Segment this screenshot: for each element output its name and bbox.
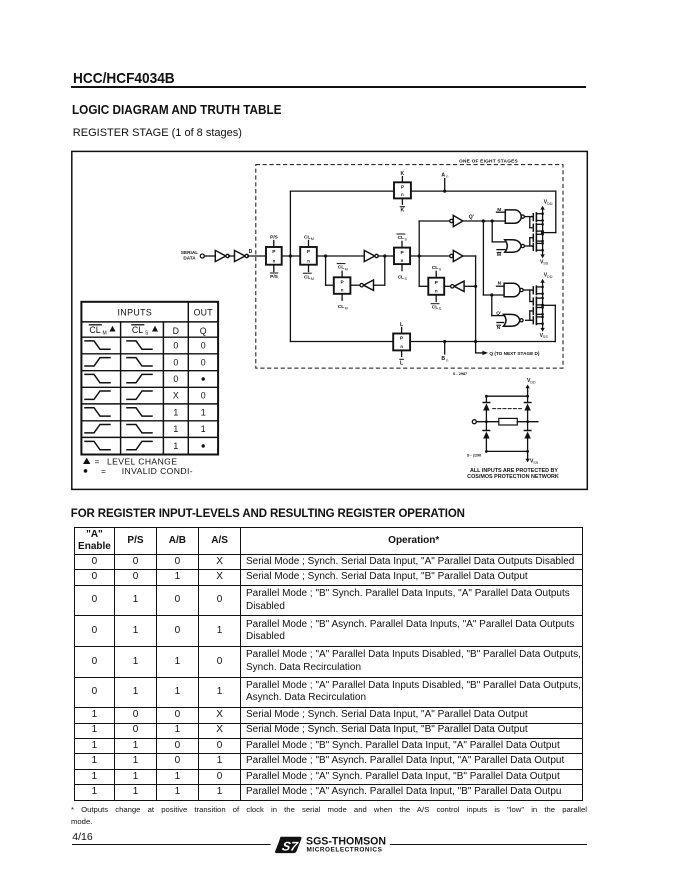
svg-text:SS: SS	[533, 461, 539, 465]
VSS upper arrow and label	[542, 250, 544, 251]
wire upper NOR output to NMOS gates	[525, 245, 532, 247]
vertical bus wire to K and L lines	[289, 191, 291, 341]
svg-text:1: 1	[173, 424, 178, 434]
svg-text:Q': Q'	[496, 310, 501, 315]
svg-text:COS/MOS PROTECTION NETWORK: COS/MOS PROTECTION NETWORK	[467, 474, 559, 480]
table footnote	[71, 804, 587, 828]
wire lower NAND output to PMOS gates	[523, 289, 532, 291]
sub heading	[73, 127, 242, 139]
svg-text:0: 0	[201, 391, 206, 401]
wire slave node up to Q-bar inverter	[418, 221, 420, 256]
wire Q-prime branch vertical B to upper NOR	[491, 221, 493, 242]
svg-text:DD: DD	[547, 202, 553, 206]
wire slave feedback TG to feedback inverter	[444, 285, 451, 287]
svg-text:M: M	[497, 207, 501, 213]
node on Q-prime line 1	[482, 219, 485, 222]
node after P/S gate	[289, 254, 292, 257]
node Q feedback tap	[474, 285, 477, 288]
truth table row 7 waveforms falling/rising	[85, 441, 110, 449]
lower section heading	[71, 508, 465, 520]
dashed box: one of eight stages	[256, 165, 563, 369]
svg-text:N: N	[498, 281, 502, 287]
svg-text:0: 0	[173, 357, 178, 367]
svg-text:=: =	[101, 467, 106, 476]
svg-text:1: 1	[201, 407, 206, 417]
wire feedback TG to feedback inverter	[350, 284, 360, 286]
svg-text:0: 0	[201, 357, 206, 367]
wire P/S gate to node	[282, 255, 301, 257]
svg-text:0: 0	[173, 341, 178, 351]
inverter input buffer 1	[215, 250, 226, 261]
wire upper rail segments	[542, 214, 544, 231]
wire to lower NOR input	[492, 315, 504, 317]
svg-text:1: 1	[173, 441, 178, 451]
SGS-THOMSON ST logo mark	[275, 837, 301, 853]
protection bottom rail	[486, 450, 527, 452]
slave feedback inverter (left pointing)	[454, 281, 464, 291]
wire lower NOR output to NMOS gates	[526, 319, 532, 321]
wire inverter1 to inverter2	[229, 255, 235, 257]
PMOS upper pair	[532, 214, 534, 221]
svg-text:0: 0	[201, 341, 206, 351]
truth table row 3 Q value	[202, 377, 205, 380]
svg-text:LEVEL CHANGE: LEVEL CHANGE	[107, 456, 177, 466]
transmission gate CLM (master)	[300, 247, 317, 265]
wire feedback inverter input from master output node	[374, 284, 385, 286]
transmission gate L	[393, 334, 410, 351]
wire master feedback down-left	[325, 256, 327, 285]
truth table row 2 waveforms rising/falling	[85, 358, 110, 366]
transmission gate CLS-bar (slave)	[394, 248, 410, 265]
wire master node to slave TG	[378, 255, 394, 257]
svg-text:MICROELECTRONICS: MICROELECTRONICS	[307, 847, 383, 854]
slave output inverter to Q (bubble input)	[453, 250, 463, 261]
svg-text:S7: S7	[281, 840, 300, 854]
protection top rail	[486, 395, 527, 397]
protection diode lower right	[527, 422, 529, 431]
inverter Q-prime (bubble input)	[453, 215, 463, 226]
truth table row 5 waveforms falling/falling	[85, 408, 110, 416]
Q vertical wire to next stage	[475, 256, 477, 353]
terminal An tap	[443, 190, 446, 193]
label ONE OF EIGHT STAGES	[459, 156, 518, 163]
wire D to P/S gate	[248, 255, 266, 257]
page header title HCC/HCF4034B	[73, 70, 175, 87]
svg-text:1: 1	[201, 424, 206, 434]
wire and arrow Q to next stage	[476, 352, 483, 354]
svg-text:CL: CL	[89, 325, 100, 335]
VDD lower arrow and label	[542, 286, 544, 287]
svg-text:SS: SS	[543, 262, 549, 266]
wire to lower NAND input	[483, 294, 504, 296]
truth table grid	[81, 302, 218, 455]
wire An line	[290, 190, 394, 192]
inverter input buffer 2	[235, 250, 246, 261]
wire lower rail segments	[542, 287, 544, 304]
protection node wire	[517, 421, 538, 423]
protection input terminal	[472, 420, 476, 424]
svg-text:S: S	[145, 331, 149, 337]
operation table	[74, 527, 583, 801]
transmission gate CLS (slave feedback)	[428, 278, 444, 295]
wire Bn line	[290, 341, 393, 343]
svg-text:OUT: OUT	[194, 307, 214, 317]
protection diode upper left	[485, 396, 487, 402]
wire upper NAND output to PMOS gates	[524, 216, 531, 218]
protection diode lower left	[485, 422, 487, 431]
svg-text:INVALID CONDI-: INVALID CONDI-	[122, 466, 193, 476]
wire Q-prime branch vertical A down to lower gates	[482, 221, 484, 295]
svg-text:M: M	[497, 252, 501, 258]
svg-text:X: X	[173, 391, 179, 401]
svg-text:S - 2290: S - 2290	[467, 453, 481, 457]
NAND gate lower (N, Q-prime)	[497, 285, 505, 287]
footer rule right	[390, 844, 587, 846]
footer rule left	[72, 844, 271, 846]
svg-text:CL: CL	[132, 325, 143, 335]
svg-text:DD: DD	[547, 275, 553, 279]
master forward inverter	[364, 250, 375, 261]
wire slave inverter output to Q vertical	[463, 255, 476, 257]
dashed distributed-diode wire	[493, 408, 522, 410]
VDD upper arrow and label	[542, 213, 544, 214]
svg-text:INPUTS: INPUTS	[118, 307, 153, 317]
svg-text:DD: DD	[530, 380, 536, 384]
master node junction	[324, 254, 327, 257]
node Q to Bn line	[474, 340, 477, 343]
PMOS lower pair	[532, 287, 534, 294]
wire input to inverter 1	[204, 255, 215, 257]
slave node junction	[418, 254, 421, 257]
transmission gate K	[394, 182, 411, 198]
svg-text:D: D	[173, 326, 179, 336]
truth table row 4 waveforms rising/rising	[85, 391, 110, 399]
upper output node to An line	[541, 231, 544, 234]
svg-text:M: M	[103, 331, 107, 337]
NMOS lower pair	[532, 308, 534, 315]
wire slave node down to slave feedback TG	[418, 256, 420, 286]
transmission gate P/S	[266, 247, 282, 265]
truth table row 7 Q value	[202, 444, 205, 447]
svg-text:Q: Q	[200, 326, 207, 336]
truth table row 3 waveforms falling/rising	[85, 374, 110, 382]
VSS lower arrow and label	[542, 324, 544, 325]
figure frame	[72, 151, 588, 489]
transmission gate CLM-bar (master feedback)	[334, 277, 351, 294]
wire slave feedback inverter input from Q vertical	[464, 285, 476, 287]
svg-text:=: =	[95, 457, 100, 466]
wire slave TG to slave node	[410, 255, 453, 257]
truth table row 1 waveforms falling/falling	[85, 341, 110, 349]
wire Q-prime line to NAND	[463, 220, 506, 222]
node on Q-prime line 2	[491, 219, 494, 222]
master feedback inverter (left pointing)	[364, 280, 374, 290]
svg-text:N: N	[497, 325, 501, 331]
svg-text:0: 0	[173, 374, 178, 384]
lower output node to Bn line	[541, 304, 544, 307]
section heading	[72, 103, 282, 117]
truth table row 6 waveforms rising/falling	[85, 425, 110, 433]
protection series resistor	[499, 418, 518, 425]
NMOS upper pair	[532, 234, 534, 241]
wire CLM gate to master node	[317, 255, 365, 257]
legend invalid condition	[84, 469, 88, 473]
protection diode upper right	[527, 396, 529, 402]
svg-text:1: 1	[173, 407, 178, 417]
NOR gate upper (input M-bar)	[497, 249, 505, 251]
master output node	[383, 254, 386, 257]
page number 4/16	[72, 831, 92, 843]
svg-text:SS: SS	[543, 335, 549, 339]
protection VSS arrow and label	[527, 451, 529, 456]
header rule	[71, 86, 586, 88]
terminal Bn tap	[443, 340, 446, 343]
NAND gate upper (M, Q-prime)	[497, 211, 506, 213]
legend level change	[83, 458, 90, 464]
